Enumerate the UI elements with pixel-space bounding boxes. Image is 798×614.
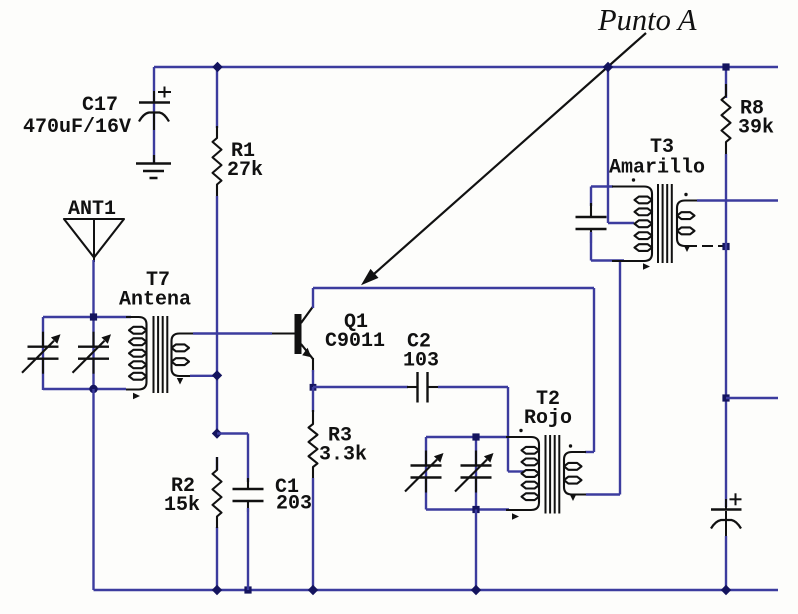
svg-text:Punto A: Punto A bbox=[597, 3, 697, 37]
capacitor C17 bbox=[139, 87, 171, 131]
label R2 value bbox=[164, 494, 200, 517]
T3 polarity mark right bbox=[684, 246, 690, 253]
label Punto A bbox=[597, 3, 697, 37]
node point A bbox=[603, 62, 613, 72]
wire R1 to T7 node bbox=[216, 196, 218, 375]
node T2 tank bottom bbox=[472, 506, 479, 513]
svg-text:3.3k: 3.3k bbox=[319, 444, 367, 467]
variable capacitor CV4 bbox=[455, 451, 494, 493]
wire T2 tank top bbox=[426, 436, 508, 438]
label T3 name bbox=[609, 157, 705, 180]
T3 polarity mark left bbox=[643, 263, 650, 269]
transformer T7 primary bbox=[126, 317, 147, 390]
wire point A drop bbox=[607, 67, 609, 223]
label R1 bbox=[231, 140, 255, 163]
label T2 name bbox=[524, 407, 572, 430]
label T7 name bbox=[119, 289, 191, 312]
wire T7 tank top bbox=[43, 316, 131, 318]
label T7 bbox=[146, 269, 170, 292]
wire T3 cap top bbox=[591, 185, 613, 187]
wire top supply rail bbox=[154, 66, 778, 68]
svg-text:15k: 15k bbox=[164, 494, 200, 517]
wire C1 to bottom rail bbox=[247, 508, 249, 590]
wire T3 secondary out bbox=[697, 199, 778, 201]
node bottom C1 bbox=[244, 586, 251, 593]
svg-text:Amarillo: Amarillo bbox=[609, 157, 705, 180]
wire T2 tank bottom bbox=[426, 508, 509, 510]
transformer T3 primary bbox=[612, 187, 652, 262]
svg-text:C9011: C9011 bbox=[325, 330, 385, 353]
label R2 bbox=[171, 475, 195, 498]
wire emitter to R3 bbox=[312, 387, 314, 412]
wire T3 cap left lower bbox=[590, 232, 592, 261]
wire tap corner down bbox=[507, 387, 509, 472]
node R2 top bbox=[212, 428, 222, 438]
label C17 bbox=[82, 94, 118, 117]
transformer T2 primary bbox=[506, 437, 539, 510]
wire C17 branch bbox=[153, 67, 155, 164]
label C2 value bbox=[403, 350, 439, 373]
wire antenna drop bbox=[92, 260, 94, 317]
wire C1 branch top bbox=[217, 432, 248, 434]
node R1 top bbox=[212, 62, 222, 72]
wire T7 tank bottom bbox=[43, 388, 126, 390]
label T3 bbox=[650, 136, 674, 159]
transformer T3 core bbox=[658, 184, 672, 263]
capacitor C2 bbox=[407, 372, 438, 403]
resistor R8 bbox=[722, 84, 731, 154]
wire T3 secondary return bbox=[686, 245, 723, 247]
wire T2 secondary bottom bbox=[586, 493, 620, 495]
wire R2 bottom lead to rail bbox=[216, 527, 218, 590]
wire R8 top bbox=[725, 67, 727, 98]
wire tank to bottom rail bbox=[92, 389, 94, 590]
node R8 top bbox=[722, 63, 729, 70]
wire T7 tank middle bbox=[92, 317, 94, 389]
wire Q1 emitter drop bbox=[312, 370, 314, 387]
wire T2 to T3 riser bbox=[619, 261, 621, 495]
wire C1 branch down bbox=[247, 434, 249, 483]
wire emitter to C2 bbox=[313, 386, 408, 388]
wire collector horizontal bbox=[313, 287, 594, 289]
label ANT1 bbox=[68, 198, 116, 221]
node T7 tank top bbox=[90, 313, 97, 320]
wire T7 tank left bbox=[42, 317, 44, 390]
wire tap into T2 primary bbox=[508, 470, 524, 472]
svg-text:C17: C17 bbox=[82, 94, 118, 117]
capacitor T3 tank bbox=[576, 203, 607, 243]
label R8 bbox=[740, 98, 764, 121]
transformer T7 secondary bbox=[172, 334, 194, 377]
node T7 secondary return bbox=[212, 370, 222, 380]
node T2 tank top bbox=[472, 433, 479, 440]
T2 phase dot left bbox=[519, 429, 522, 432]
svg-text:39k: 39k bbox=[738, 117, 774, 140]
wire T7 secondary bottom bbox=[190, 375, 217, 377]
capacitor C1 bbox=[233, 478, 264, 512]
label C1 value bbox=[276, 493, 312, 516]
label C2 bbox=[407, 331, 431, 354]
antenna ANT1 bbox=[64, 219, 124, 262]
wire output right bbox=[726, 397, 778, 399]
svg-text:Rojo: Rojo bbox=[524, 407, 572, 430]
node bottom R2 bbox=[212, 585, 222, 595]
variable capacitor CV1 bbox=[22, 332, 61, 374]
label Q1 bbox=[344, 311, 368, 334]
svg-text:ANT1: ANT1 bbox=[68, 198, 116, 221]
transformer T7 core bbox=[154, 316, 168, 393]
transistor Q1 bbox=[295, 307, 314, 373]
wire tap into T3 primary bbox=[608, 222, 634, 224]
transformer T3 secondary bbox=[677, 201, 697, 247]
label R8 value bbox=[738, 117, 774, 140]
wire T3 tank bottom bbox=[591, 259, 624, 261]
wire R1 branch upper bbox=[216, 67, 218, 128]
node output tap bbox=[722, 394, 729, 401]
T2 polarity mark left bbox=[512, 513, 519, 519]
wire node to R2 bbox=[216, 375, 218, 434]
wire Q1 base black bbox=[272, 332, 295, 334]
T2 polarity mark right bbox=[570, 495, 576, 502]
T7 polarity mark right bbox=[177, 378, 183, 385]
wire bottom rail bbox=[94, 589, 779, 591]
label R3 value bbox=[319, 444, 367, 467]
resistor R1 bbox=[213, 126, 222, 196]
wire T7 to Q1 base bbox=[193, 332, 272, 334]
wire R3 to bottom rail bbox=[312, 478, 314, 590]
label C1 bbox=[275, 476, 299, 499]
wire T2 tank middle bbox=[475, 437, 477, 510]
svg-text:470uF/16V: 470uF/16V bbox=[23, 116, 131, 139]
T7 polarity mark left bbox=[133, 393, 140, 399]
label C17 value bbox=[23, 116, 131, 139]
wire into T2 secondary top bbox=[585, 451, 594, 453]
T2 phase dot right bbox=[569, 444, 572, 447]
node bottom T2 bbox=[471, 585, 481, 595]
wire T3 cap left upper bbox=[590, 187, 592, 207]
node T3 return bbox=[722, 243, 729, 250]
transformer T2 secondary bbox=[564, 452, 586, 495]
label R3 bbox=[328, 425, 352, 448]
T3 phase dot left bbox=[632, 178, 635, 181]
transformer T2 core bbox=[546, 435, 560, 514]
svg-text:203: 203 bbox=[276, 493, 312, 516]
svg-text:27k: 27k bbox=[227, 159, 263, 182]
wire collector to T2 bbox=[593, 288, 595, 452]
node Q1 emitter junction bbox=[310, 384, 317, 391]
ground bbox=[136, 155, 171, 178]
variable capacitor CV3 bbox=[405, 451, 444, 493]
resistor R3 bbox=[309, 410, 318, 478]
svg-text:Antena: Antena bbox=[119, 289, 191, 312]
node bottom output bbox=[721, 585, 731, 595]
label T2 bbox=[536, 388, 560, 411]
variable capacitor CV2 bbox=[73, 332, 112, 374]
wire C2 to T2 tap bbox=[438, 386, 508, 388]
node T7 tank bottom bbox=[89, 385, 97, 393]
svg-text:103: 103 bbox=[403, 350, 439, 373]
wire Q1 collector riser bbox=[312, 288, 314, 308]
label R1 value bbox=[227, 159, 263, 182]
wire T2 tank left bbox=[425, 437, 427, 510]
wire T2 tank to bottom rail bbox=[475, 510, 477, 591]
capacitor output bbox=[711, 493, 742, 540]
arrow to point A bbox=[361, 33, 646, 285]
resistor R2 bbox=[213, 457, 222, 528]
label Q1 part bbox=[325, 330, 385, 353]
T3 phase dot right bbox=[684, 193, 687, 196]
wire R8 down bbox=[725, 154, 727, 507]
wire cap to bottom rail bbox=[725, 536, 727, 590]
wire R2 to bottom rail bbox=[216, 457, 218, 470]
node bottom R3 bbox=[308, 585, 318, 595]
